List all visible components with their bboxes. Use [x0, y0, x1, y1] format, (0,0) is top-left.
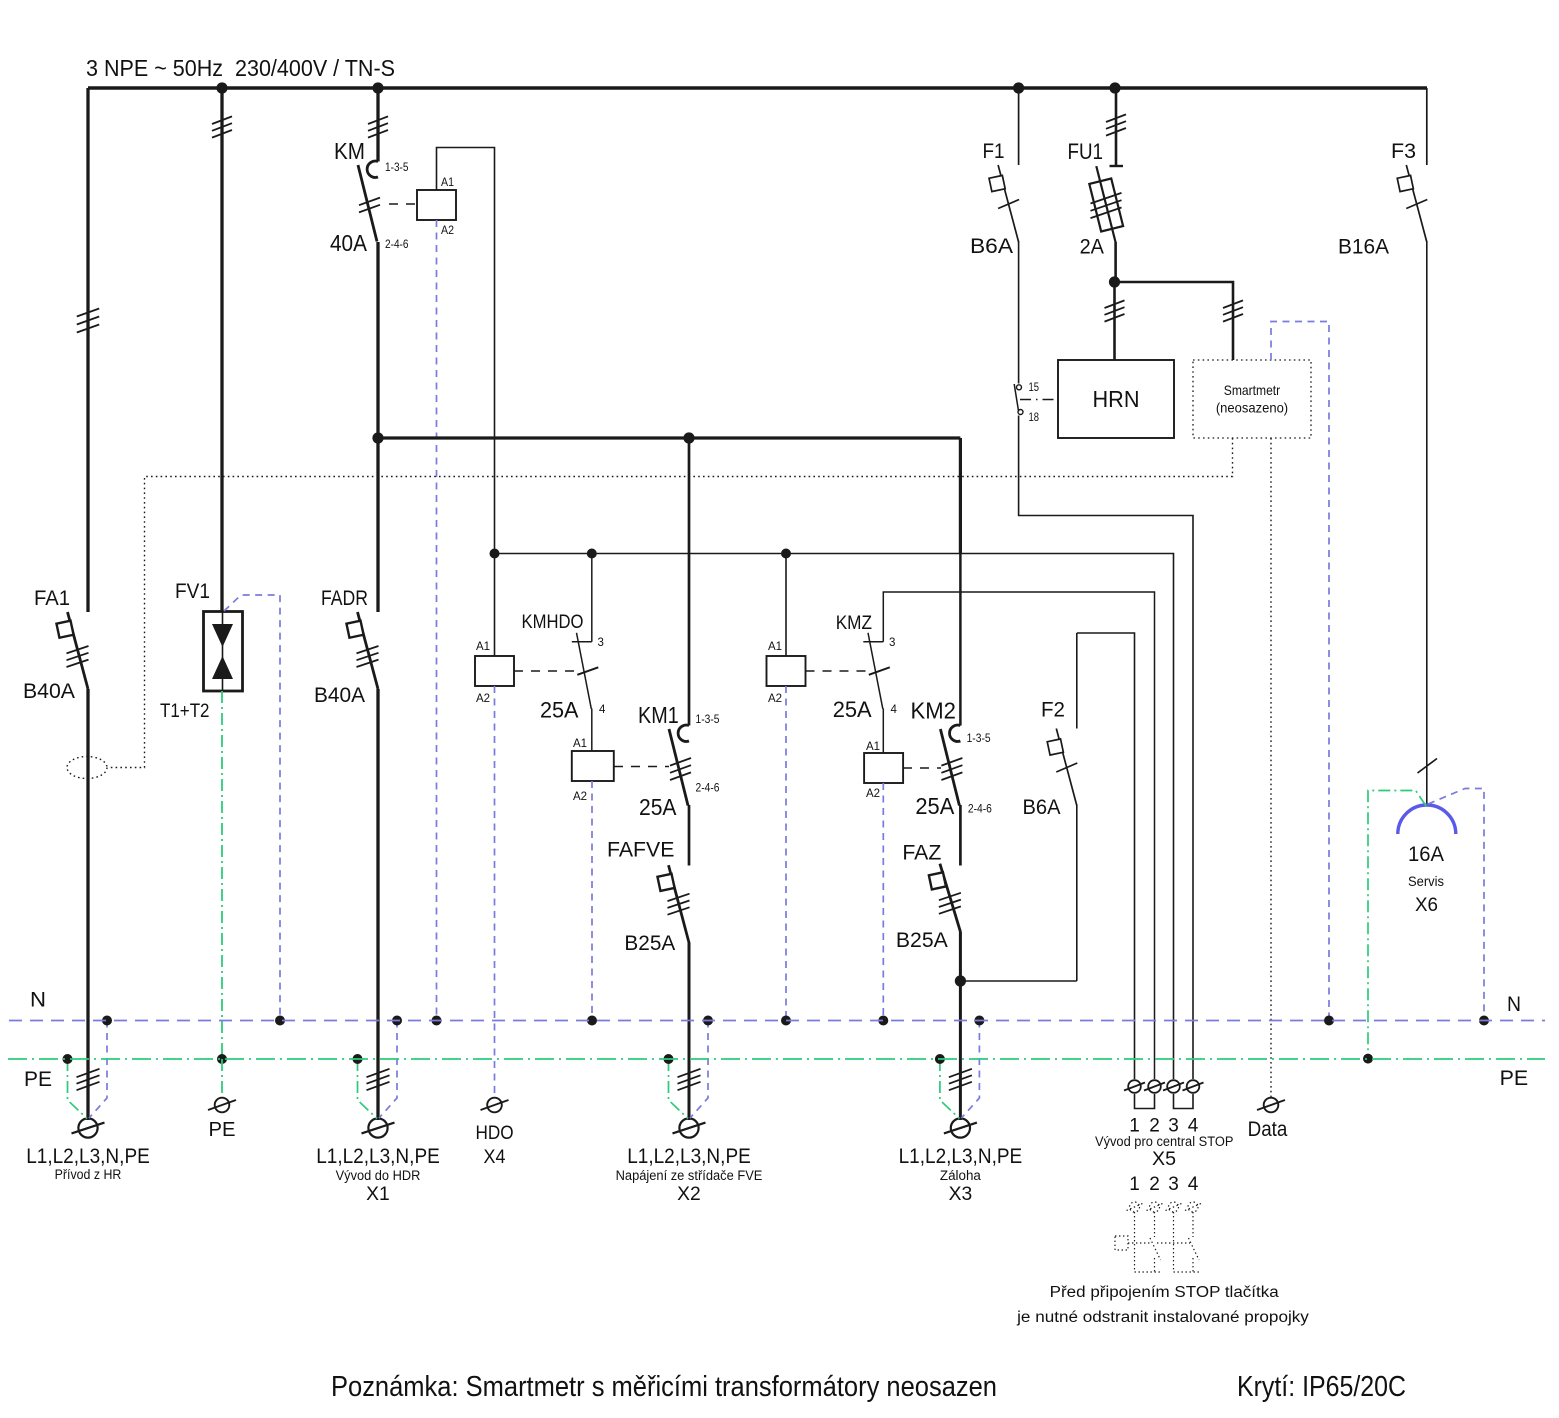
rail PE (green dash-dot)	[8, 1058, 1545, 1060]
svg-text:X5: X5	[1152, 1148, 1176, 1170]
svg-text:X4: X4	[484, 1147, 506, 1168]
coil KM2	[864, 753, 903, 783]
contactor KM main contact	[367, 161, 378, 177]
svg-text:Vývod pro central STOP: Vývod pro central STOP	[1095, 1134, 1233, 1149]
coil KMHDO	[475, 656, 514, 686]
svg-text:F1: F1	[983, 139, 1005, 163]
coil KMZ	[767, 656, 806, 686]
svg-text:FAZ: FAZ	[902, 840, 941, 864]
svg-text:A1: A1	[476, 641, 490, 653]
wire F3 feed	[1426, 88, 1428, 165]
svg-text:2-4-6: 2-4-6	[696, 783, 720, 795]
wire FAZ out to X3	[959, 932, 962, 1121]
svg-text:KMHDO: KMHDO	[522, 612, 584, 633]
3-phase marks KM feed	[368, 116, 388, 124]
svg-text:2-4-6: 2-4-6	[385, 239, 409, 251]
breaker F2	[1056, 729, 1077, 806]
socket X6 N link (dashed)	[1428, 789, 1484, 1021]
wire F1 feed	[1018, 88, 1020, 165]
breaker FADR	[358, 612, 379, 689]
svg-text:3: 3	[1168, 1174, 1179, 1195]
terminal X4 HDO	[487, 1098, 502, 1113]
mech link HRN contact	[1020, 399, 1058, 401]
svg-text:L1,L2,L3,N,PE: L1,L2,L3,N,PE	[26, 1145, 150, 1168]
terminal X1	[368, 1118, 387, 1137]
node ctlbus - KMHDO contact	[587, 549, 597, 559]
svg-text:3: 3	[598, 637, 604, 649]
coil KM	[417, 190, 456, 220]
svg-text:FADR: FADR	[321, 587, 368, 610]
wire F1 to HRN contact	[1018, 241, 1020, 384]
svg-text:4: 4	[599, 704, 606, 716]
FV1 center conductor	[222, 612, 224, 692]
svg-text:HRN: HRN	[1093, 386, 1140, 412]
3-phase marks FU1 feed	[1106, 114, 1126, 122]
socket X6 arc	[1398, 805, 1456, 834]
svg-text:FU1: FU1	[1068, 139, 1104, 164]
node PE - FV1	[217, 1054, 227, 1064]
wire FV1 column	[220, 88, 223, 612]
wire FAFVE out to X2	[688, 943, 691, 1121]
svg-text:Poznámka: Smartmetr s měřicími: Poznámka: Smartmetr s měřicími transform…	[331, 1371, 997, 1403]
svg-text:A2: A2	[441, 225, 454, 237]
top bus L1L2L3 wire	[88, 86, 1427, 89]
3-phase marks HRN feed	[1105, 300, 1125, 308]
wire KMZ out to KM2 coil	[882, 709, 884, 754]
node ctlbus - KMZ coil	[781, 549, 791, 559]
svg-text:HDO: HDO	[475, 1123, 513, 1144]
wire KM2 out	[959, 805, 962, 866]
node ctlbus - KM coil feed	[490, 549, 500, 559]
svg-text:18: 18	[1029, 412, 1040, 424]
svg-text:40A: 40A	[330, 230, 368, 256]
svg-text:B6A: B6A	[970, 234, 1014, 258]
svg-text:16A: 16A	[1408, 842, 1445, 866]
svg-text:Krytí: IP65/20C: Krytí: IP65/20C	[1237, 1371, 1406, 1403]
1-phase mark X6	[1418, 759, 1438, 774]
svg-text:Napájení ze střídače FVE: Napájení ze střídače FVE	[616, 1168, 763, 1183]
wire F2 out	[1076, 805, 1078, 982]
wire KM output	[376, 242, 379, 438]
mech link KMZ	[806, 670, 867, 672]
terminal X2	[679, 1118, 698, 1137]
mech link KM blade-coil	[389, 203, 417, 205]
node N - KM2 coil A2	[878, 1016, 888, 1026]
3-phase marks X0 cable	[77, 1069, 100, 1077]
node top bus - F1 tap	[1013, 82, 1024, 93]
wire FADR feed	[376, 438, 379, 612]
svg-text:3: 3	[889, 637, 895, 649]
breaker FA1	[68, 612, 89, 689]
svg-text:1-3-5: 1-3-5	[696, 714, 720, 726]
fuse FU1 pole marks	[1091, 193, 1122, 204]
svg-text:B16A: B16A	[1338, 235, 1390, 259]
CT ellipse (Smartmetr measuring point)	[67, 757, 107, 779]
3-phase marks X2 cable	[678, 1069, 701, 1077]
wire F3 out	[1426, 241, 1428, 806]
wire KM1 coil A2 to N (dashed)	[591, 781, 593, 1021]
breaker FAZ	[940, 864, 961, 932]
wire Smartmetr N (dashed)	[1271, 322, 1329, 1021]
svg-text:4: 4	[1188, 1174, 1199, 1195]
svg-text:15: 15	[1029, 382, 1040, 394]
wire KMZ coil A1 down	[785, 554, 787, 657]
jumper X5 1-2	[1135, 1094, 1155, 1109]
svg-text:1-3-5: 1-3-5	[385, 162, 409, 174]
svg-text:25A: 25A	[833, 697, 872, 722]
svg-text:FAFVE: FAFVE	[607, 838, 674, 862]
contactor KM1 main contact	[678, 725, 689, 741]
wire KMZ A2 to N (dashed)	[785, 686, 787, 1021]
N/PE bundle into X2	[690, 1021, 708, 1119]
svg-text:A1: A1	[441, 177, 454, 189]
contact KMHDO	[572, 641, 592, 643]
wire KMHDO contact top	[591, 554, 593, 642]
svg-text:X3: X3	[949, 1184, 973, 1205]
svg-text:B6A: B6A	[1023, 795, 1062, 819]
svg-text:2-4-6: 2-4-6	[968, 803, 992, 815]
socket X6 PE link (green)	[1368, 791, 1426, 1059]
node N - FV1	[275, 1016, 285, 1026]
wire FU1 out	[1114, 242, 1117, 282]
wire FADR output to X1	[376, 689, 379, 1120]
svg-text:PE: PE	[24, 1068, 52, 1091]
wire KM2 feed	[959, 438, 962, 554]
terminal PE	[215, 1098, 230, 1113]
node top bus - FV1 tap	[216, 82, 227, 93]
wire to Smartmetr	[1115, 282, 1234, 360]
svg-text:Vývod do HDR: Vývod do HDR	[336, 1168, 421, 1183]
wire FA1 column lower	[86, 689, 89, 1120]
svg-text:25A: 25A	[639, 794, 677, 820]
wire KM1 feed	[688, 438, 691, 726]
terminal X5:2	[1148, 1080, 1161, 1093]
N/PE bundle into X3	[961, 1021, 979, 1119]
fuse FU1 top bar	[1110, 165, 1124, 167]
wire FU1 feed	[1115, 88, 1118, 166]
3-phase marks FA1 feed	[77, 309, 99, 317]
dotted CT measuring link	[108, 438, 1233, 768]
meter Smartmetr box (dotted)	[1193, 360, 1311, 438]
svg-text:B25A: B25A	[624, 931, 676, 955]
svg-text:A2: A2	[476, 693, 490, 705]
wire FA1 column upper	[86, 88, 89, 612]
svg-text:KM1: KM1	[638, 702, 679, 728]
svg-text:A1: A1	[768, 641, 782, 653]
svg-text:N: N	[1507, 992, 1521, 1016]
coil KM1	[572, 751, 614, 781]
contact KMZ	[863, 641, 883, 643]
3-phase marks X3 cable	[949, 1069, 972, 1077]
wire bus 438 (KM output rail)	[378, 436, 960, 439]
svg-text:3 NPE ~ 50Hz 230/400V / TN-S: 3 NPE ~ 50Hz 230/400V / TN-S	[86, 55, 395, 81]
svg-text:25A: 25A	[915, 793, 955, 819]
svg-text:A2: A2	[768, 693, 782, 705]
svg-text:KMZ: KMZ	[836, 613, 873, 634]
3-phase marks Smartmetr feed	[1223, 300, 1243, 308]
breaker F1	[998, 165, 1019, 242]
svg-text:B25A: B25A	[896, 928, 949, 952]
wire F1 out to X5:4	[1019, 416, 1193, 1080]
wire KMHDO coil A1 down	[494, 554, 496, 657]
mech link KM1	[614, 766, 669, 768]
breaker F3	[1406, 165, 1427, 242]
svg-text:Servis: Servis	[1408, 874, 1444, 889]
N/PE bundle into Přívod terminal	[89, 1021, 107, 1119]
node N - X6	[1479, 1016, 1489, 1026]
wire control bus 554	[495, 554, 1174, 1080]
svg-text:F2: F2	[1041, 698, 1065, 722]
mech link KMHDO	[514, 670, 581, 672]
svg-text:X6: X6	[1415, 895, 1438, 916]
svg-text:X1: X1	[366, 1184, 390, 1205]
FV1 arrow down	[212, 624, 233, 647]
node N - KMZ coil A2	[781, 1016, 791, 1026]
rail N (dashed)	[9, 1020, 1545, 1022]
svg-text:A1: A1	[866, 741, 880, 753]
node N - KM1 coil A2	[587, 1016, 597, 1026]
svg-text:KM2: KM2	[911, 697, 956, 723]
svg-text:je nutné odstranit instalované: je nutné odstranit instalované propojky	[1016, 1309, 1309, 1326]
svg-text:FA1: FA1	[34, 586, 70, 610]
wire F2 branch	[960, 633, 1134, 1079]
svg-text:2A: 2A	[1080, 235, 1105, 259]
node N - KM coil A2	[432, 1016, 442, 1026]
svg-text:4: 4	[891, 704, 898, 716]
svg-text:PE: PE	[209, 1119, 236, 1141]
svg-text:Smartmetr: Smartmetr	[1224, 382, 1281, 398]
jumper X5 3-4	[1174, 1094, 1194, 1109]
wire Smartmetr data (dotted)	[1270, 438, 1272, 1097]
terminal L1,L2,L3,N,PE (Přívod z HR)	[78, 1118, 97, 1137]
HRN aux contact 15-18	[1017, 385, 1022, 390]
node PE - X6	[1363, 1054, 1373, 1064]
wire KM feed	[376, 88, 379, 162]
fuse FU1 blade	[1096, 166, 1115, 242]
node top bus - FU1 tap	[1109, 82, 1120, 93]
svg-text:KM: KM	[334, 138, 365, 164]
svg-text:N: N	[30, 989, 46, 1012]
wire KM2 coil A2 to N (dashed)	[882, 783, 884, 1021]
STOP buttons sketch (dotted)	[1130, 1202, 1140, 1212]
wire KM coil A2 to N (dashed)	[436, 220, 438, 1021]
svg-text:FV1: FV1	[175, 579, 210, 603]
3-phase marks FV1 feed	[212, 116, 232, 124]
terminal X5:4	[1187, 1080, 1200, 1093]
svg-text:1: 1	[1129, 1174, 1140, 1195]
wire KM coil A1 up-over	[437, 148, 495, 554]
fuse FU1 body	[1089, 178, 1123, 231]
wire PE stub to PE terminal	[221, 1059, 223, 1097]
wire FV1 to PE (green)	[221, 691, 223, 1059]
node bus438 - KM	[372, 432, 383, 443]
svg-text:L1,L2,L3,N,PE: L1,L2,L3,N,PE	[627, 1145, 751, 1168]
terminal Data	[1264, 1098, 1279, 1113]
svg-text:L1,L2,L3,N,PE: L1,L2,L3,N,PE	[899, 1145, 1023, 1168]
svg-text:B40A: B40A	[314, 683, 366, 707]
wire KMHDO A2 to X4 (dashed)	[494, 686, 496, 1097]
wire KMZ contact top + link to X5:2	[883, 592, 1154, 1079]
N/PE bundle into X1	[379, 1021, 397, 1119]
wire KM1 out	[688, 805, 691, 866]
svg-text:PE: PE	[1500, 1066, 1529, 1090]
terminal X3	[951, 1118, 970, 1137]
svg-text:1-3-5: 1-3-5	[967, 733, 991, 745]
svg-text:2: 2	[1149, 1174, 1160, 1195]
breaker FAFVE	[669, 865, 690, 943]
svg-text:Před připojením STOP tlačítka: Před připojením STOP tlačítka	[1050, 1284, 1279, 1301]
svg-text:A2: A2	[866, 788, 880, 800]
node top bus - KM tap	[372, 82, 383, 93]
mech link KM2	[903, 767, 941, 769]
surge arrester FV1 box	[204, 612, 243, 692]
3-phase marks X1 cable	[367, 1069, 390, 1077]
wire KMHDO out to KM1 coil	[591, 709, 593, 752]
terminal X5:3	[1167, 1080, 1180, 1093]
svg-text:A1: A1	[573, 738, 587, 750]
wire FV1 N link (dashed)	[224, 595, 280, 1021]
wire to HRN	[1113, 282, 1116, 360]
svg-text:F3: F3	[1391, 139, 1416, 163]
svg-text:A2: A2	[573, 791, 587, 803]
relay HRN box	[1058, 360, 1174, 438]
node HRN feed split	[1109, 276, 1120, 287]
svg-text:Přívod z HR: Přívod z HR	[55, 1167, 122, 1182]
svg-text:L1,L2,L3,N,PE: L1,L2,L3,N,PE	[316, 1145, 440, 1168]
svg-text:X2: X2	[677, 1184, 701, 1205]
node bus438 - KM1 tap	[683, 432, 694, 443]
svg-text:25A: 25A	[540, 698, 579, 723]
FV1 arrow up	[212, 656, 233, 679]
svg-text:Data: Data	[1248, 1118, 1288, 1141]
svg-text:(neosazeno): (neosazeno)	[1216, 400, 1288, 416]
svg-text:B40A: B40A	[23, 679, 76, 703]
svg-text:T1+T2: T1+T2	[160, 701, 210, 722]
contactor KM2 main contact	[950, 725, 961, 741]
wire F2 upper stub	[1076, 633, 1078, 729]
terminal X5:1	[1128, 1080, 1141, 1093]
svg-text:Záloha: Záloha	[940, 1168, 981, 1183]
node N - Smartmetr	[1324, 1016, 1334, 1026]
node FAZ out - F2 branch	[955, 975, 966, 986]
